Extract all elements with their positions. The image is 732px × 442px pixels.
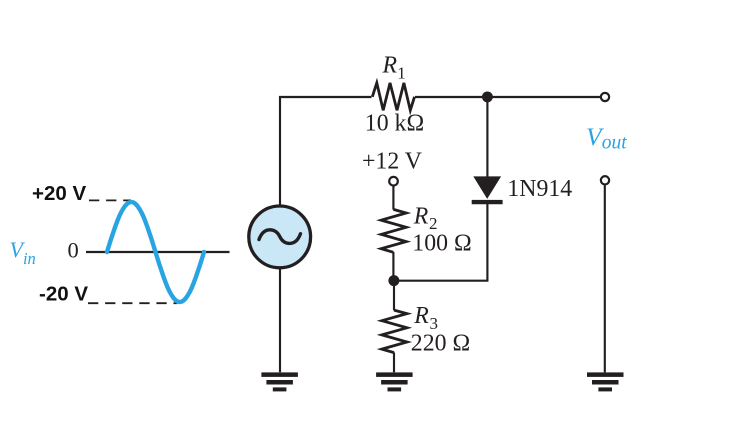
svg-text:220 Ω: 220 Ω <box>411 330 470 356</box>
ground source <box>261 372 298 391</box>
svg-text:+12 V: +12 V <box>362 148 422 174</box>
wire: node B to diode cathode <box>394 204 487 281</box>
diode D1 cathode bar <box>472 200 503 204</box>
wire: source bottom to ground <box>279 268 281 372</box>
wire: node A to diode anode <box>486 97 488 178</box>
output terminal bottom <box>601 176 609 184</box>
svg-text:1: 1 <box>397 63 406 82</box>
AC source <box>249 206 311 268</box>
+20 V level dashed line <box>89 199 131 201</box>
wire: output bottom terminal to ground <box>604 185 606 372</box>
wire: +12 V terminal to R2 <box>392 186 394 209</box>
svg-text:+20 V: +20 V <box>32 182 86 205</box>
node B junction dot <box>388 275 399 286</box>
wire: R3 to ground <box>393 352 395 372</box>
svg-text:0: 0 <box>68 237 79 262</box>
svg-text:R: R <box>413 203 429 229</box>
node A junction dot <box>482 91 493 102</box>
svg-text:out: out <box>602 132 628 153</box>
svg-text:Vin: Vin <box>10 237 36 268</box>
svg-text:100 Ω: 100 Ω <box>412 230 471 256</box>
wire: R1 to output terminal <box>415 96 601 98</box>
AC source tilde <box>259 230 301 244</box>
svg-text:10 kΩ: 10 kΩ <box>365 111 424 137</box>
svg-text:R: R <box>413 303 429 329</box>
ground right <box>587 372 624 391</box>
wire: source top to R1 <box>280 97 372 205</box>
wire: R2 to node B <box>392 252 394 281</box>
diode D1 triangle <box>473 176 501 199</box>
ground R3 <box>376 372 413 391</box>
svg-text:-20 V: -20 V <box>39 283 88 306</box>
+12 V supply terminal <box>389 177 398 186</box>
wire: node B to R3 <box>393 281 395 311</box>
sine wave Vin <box>107 202 204 302</box>
svg-text:1N914: 1N914 <box>507 176 572 202</box>
output terminal top <box>601 93 609 101</box>
-20 V level dashed line <box>88 302 178 304</box>
svg-text:R: R <box>382 53 398 79</box>
waveform zero axis <box>86 251 230 253</box>
resistor R1 <box>372 83 414 110</box>
resistor R3 <box>382 310 407 353</box>
resistor R2 <box>381 209 406 252</box>
